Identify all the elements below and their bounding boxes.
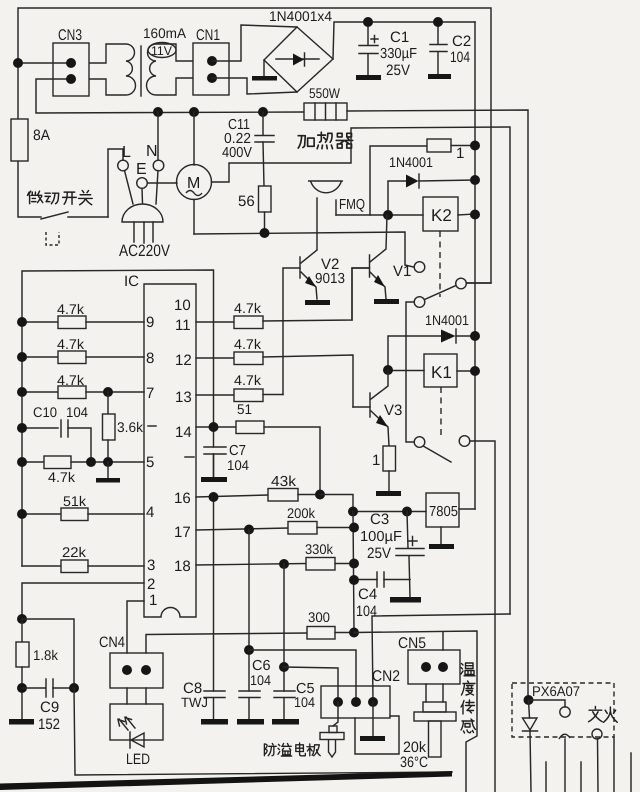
svg-text:400V: 400V (222, 145, 252, 161)
ground (V2 emitter) (305, 300, 330, 305)
connector PX6A07 (dashed) (512, 683, 614, 737)
thermistor sensor 20k/36C (400, 702, 456, 771)
svg-text:C2: C2 (452, 33, 471, 50)
resistor 330k (pin18) (196, 541, 359, 570)
capacitor C5 104 (274, 564, 315, 719)
wire: C5 node to CN2 pin1 (284, 667, 338, 702)
ground (C2) (428, 74, 451, 79)
svg-text:2: 2 (147, 576, 155, 593)
capacitor C3 100uF 25V (360, 511, 424, 597)
svg-text:K2: K2 (431, 206, 452, 225)
wire: FMQ/V1 node to K2 coil (336, 214, 423, 216)
svg-text:LED: LED (126, 751, 150, 768)
relay contact K2 (changeover switch) (406, 262, 491, 442)
ground (C3/C4) (390, 597, 421, 603)
resistor 200k (pin17) (196, 505, 359, 535)
node: V1 collector / K2 junction (383, 210, 393, 220)
capacitor C8 TWJ (181, 680, 225, 719)
wire: Vcc node to 7805 input (353, 511, 426, 513)
transformer T1 core (140, 46, 142, 96)
wire: motor return to heater line2 x510 (212, 127, 511, 614)
svg-text:1N4001: 1N4001 (425, 312, 469, 328)
svg-text:IC: IC (124, 273, 139, 290)
svg-text:3: 3 (147, 557, 155, 574)
svg-text:FMQ: FMQ (339, 197, 365, 213)
label: heater 加热器 (298, 132, 353, 149)
svg-text:9013: 9013 (315, 271, 345, 287)
svg-text:25V: 25V (367, 545, 391, 562)
label: overflow electrode 防溢电极 (264, 743, 320, 756)
svg-text:C3: C3 (370, 511, 389, 528)
svg-text:C4: C4 (358, 586, 377, 603)
wire: border to CN3 pin1 (18, 62, 71, 64)
motor M (177, 112, 212, 234)
capacitor C1 330uF 25V (359, 22, 417, 79)
wire: heater line2 to CN2 pin3 (372, 614, 510, 702)
resistor 4.7k (pin8) (17, 336, 144, 364)
capacitor C4 104 (349, 572, 410, 620)
transistor V2 9013 (283, 250, 345, 395)
svg-text:160mA: 160mA (143, 25, 187, 41)
wire: pin16 row (196, 492, 268, 502)
relay contact K1 (switch) (414, 436, 495, 792)
wire: CN3 pin2 to lower AC rail (36, 79, 304, 113)
svg-text:152: 152 (38, 716, 60, 733)
wire: divider bus x354 (353, 512, 354, 633)
svg-text:104: 104 (450, 49, 470, 66)
ignition switch contact (PX6A07) (529, 700, 571, 792)
ground (CN2 pin3) (360, 702, 385, 741)
svg-text:K1: K1 (431, 363, 452, 382)
svg-text:4.7k: 4.7k (48, 469, 76, 485)
wire: pin2 to timing network (22, 583, 144, 619)
resistor 300 (CN4) (146, 609, 359, 653)
resistor 4.7k (pin9) (17, 301, 144, 329)
LED indicator (110, 704, 163, 768)
ground (C8) (201, 719, 228, 725)
wire: mains top border loop (18, 8, 491, 283)
terminal L (118, 144, 133, 204)
svg-text:17: 17 (174, 524, 191, 541)
svg-text:104: 104 (66, 404, 88, 420)
svg-text:10: 10 (174, 297, 191, 314)
lamp terminal (simmer) (592, 729, 602, 792)
resistor 1 (V3 emitter) (372, 446, 396, 491)
node: lower AC rail junctions (153, 107, 163, 117)
relay coil K2 (423, 197, 475, 297)
svg-text:4.7k: 4.7k (234, 300, 262, 316)
svg-text:7805: 7805 (429, 504, 458, 520)
svg-text:4.7k: 4.7k (234, 372, 262, 388)
diode (PX6A07) (523, 700, 538, 792)
svg-text:22k: 22k (62, 544, 87, 560)
svg-text:V1: V1 (393, 263, 411, 280)
ground (C7) (201, 477, 227, 482)
svg-text:51: 51 (237, 401, 252, 417)
transformer T1 secondary winding (143, 25, 193, 95)
svg-text:550W: 550W (309, 85, 341, 101)
wire: L feed from micro switch (108, 149, 123, 217)
resistor 56 (238, 186, 271, 234)
svg-text:11: 11 (175, 317, 191, 334)
svg-text:CN3: CN3 (58, 27, 82, 44)
resistor 4.7k (pin13 to V2) (196, 372, 283, 402)
svg-text:51k: 51k (63, 493, 87, 509)
svg-text:25V: 25V (386, 62, 410, 79)
ground (pin5 node) (96, 462, 120, 483)
svg-text:C1: C1 (390, 29, 409, 46)
svg-text:1: 1 (149, 592, 157, 609)
wire: pot body loop under CN2 (355, 716, 399, 754)
transistor V3 (353, 370, 402, 446)
svg-text:8: 8 (146, 350, 154, 367)
ground (1.8k/C9) (9, 719, 34, 725)
capacitor C11 0.22 400V (222, 112, 274, 186)
svg-text:11V: 11V (151, 44, 173, 58)
resistor 3.6k (103, 392, 144, 462)
svg-text:1.8k: 1.8k (33, 647, 59, 663)
wire: heater to right bus x528 (347, 110, 528, 700)
connector CN5 (398, 632, 460, 702)
wire: main positive bus x475 (474, 22, 476, 509)
svg-text:C9: C9 (40, 699, 59, 716)
capacitor C9 152 (22, 679, 79, 733)
resistor 1.8k (16, 619, 59, 719)
wire: bottom return line (74, 688, 452, 775)
svg-text:1: 1 (372, 452, 380, 469)
svg-text:V3: V3 (384, 402, 402, 419)
resistor 51 (pin14) (196, 401, 320, 494)
capacitor C10 104 (17, 404, 91, 462)
ground (bridge negative) (252, 60, 277, 81)
resistor 22k (pin3) (22, 544, 144, 573)
capacitor C7 104 (204, 443, 249, 477)
transformer T1 primary winding (89, 44, 136, 95)
svg-text:PX6A07: PX6A07 (532, 683, 580, 699)
svg-text:104: 104 (227, 457, 249, 473)
capacitor C6 104 (239, 530, 271, 720)
svg-text:104: 104 (356, 603, 377, 620)
svg-text:100µF: 100µF (360, 529, 402, 545)
svg-text:C10: C10 (33, 404, 57, 420)
wire: bridge DC+ to top supply rail (333, 22, 475, 59)
node: top rail junctions (363, 17, 373, 27)
svg-text:9: 9 (146, 314, 154, 331)
svg-text:104: 104 (294, 694, 315, 710)
diode 1N4001 (K2 flyback) (388, 154, 475, 215)
svg-text:13: 13 (175, 389, 192, 406)
label: simmer 文火 (589, 707, 618, 723)
wire: lower common rail (194, 232, 414, 267)
capacitor C2 104 (430, 22, 471, 74)
label: micro switch 微动开关 (28, 191, 93, 205)
resistor 4.7k (pin5) (17, 456, 144, 485)
wire: C6 node to CN2 pin2 (249, 650, 356, 702)
svg-text:CN4: CN4 (99, 634, 125, 651)
svg-text:330µF: 330µF (380, 46, 417, 62)
svg-text:CN2: CN2 (372, 668, 400, 685)
wire: CN1 pin1 to bridge AC top (212, 25, 297, 61)
svg-text:4: 4 (146, 504, 154, 521)
scan edge bar (bottom) (0, 771, 452, 790)
svg-text:18: 18 (174, 558, 191, 575)
label: temperature sensor 温度传感 (vertical) (461, 663, 476, 733)
bridge rectifier 1N4001x4 (264, 8, 333, 92)
diode 1N4001 (K1 flyback) (388, 312, 475, 370)
IC U1 (124, 273, 196, 617)
connector CN2 (321, 668, 400, 718)
AC plug AC220V (119, 204, 170, 260)
connector CN3 (53, 27, 89, 96)
connector CN1 (193, 27, 229, 95)
svg-text:1N4001x4: 1N4001x4 (269, 8, 332, 24)
wire: left supply bus (22, 270, 214, 447)
svg-text:200k: 200k (287, 505, 316, 521)
svg-text:43k: 43k (271, 474, 297, 490)
node: V3 collector / K1 junction (383, 365, 393, 375)
resistor 1 (K2 feed) (427, 139, 475, 162)
overflow electrode probe (320, 702, 344, 757)
svg-text:4.7k: 4.7k (57, 301, 85, 317)
wire: node to CN5/temp sensor loop (354, 631, 477, 792)
ground (C1) (356, 75, 381, 80)
svg-text:CN1: CN1 (196, 27, 220, 44)
micro switch (arm and actuator) (41, 212, 108, 245)
ground (C6) (237, 719, 264, 725)
svg-text:4.7k: 4.7k (57, 336, 85, 352)
svg-text:8A: 8A (33, 127, 50, 144)
resistor 550W heater element (304, 85, 347, 120)
ground (7805) (429, 544, 454, 549)
resistor 4.7k (pin11 to V1) (196, 268, 369, 329)
svg-text:AC220V: AC220V (119, 242, 170, 260)
svg-text:L: L (122, 144, 131, 161)
svg-text:14: 14 (175, 424, 192, 441)
wire: CN1 pin2 to bridge AC bottom (212, 78, 297, 94)
resistor 4.7k (pin12 to V3) (196, 336, 353, 407)
svg-text:12: 12 (175, 352, 192, 369)
regulator 7805 (426, 493, 475, 544)
transistor V1 (352, 215, 411, 320)
svg-text:330k: 330k (305, 541, 334, 557)
svg-text:N: N (146, 143, 158, 160)
wire: bottom edge stubs (546, 737, 631, 792)
connector CN4 (99, 601, 163, 704)
svg-text:E: E (136, 161, 147, 178)
relay coil K1 (388, 354, 475, 437)
svg-text:300: 300 (308, 609, 330, 625)
resistor 51k (pin4) (17, 493, 144, 521)
fuse 8A (11, 119, 50, 161)
resistor 4.7k (pin7) (17, 372, 144, 399)
buzzer FMQ (308, 181, 368, 249)
svg-text:7: 7 (146, 385, 154, 402)
resistor 43k (pin16) (268, 474, 353, 512)
svg-text:5: 5 (146, 454, 154, 471)
ground (C5) (272, 719, 299, 725)
terminal N (146, 112, 164, 204)
svg-text:56: 56 (238, 193, 255, 210)
svg-text:4.7k: 4.7k (234, 336, 262, 352)
svg-text:16: 16 (174, 490, 191, 507)
ground (V1 emitter) (374, 299, 399, 304)
svg-text:1N4001: 1N4001 (389, 154, 433, 170)
svg-text:3.6k: 3.6k (117, 419, 144, 435)
svg-text:1: 1 (456, 145, 464, 162)
svg-text:104: 104 (250, 672, 271, 688)
terminal E (136, 161, 177, 203)
ground (V3 emitter resistor) (376, 491, 401, 496)
svg-text:M: M (187, 175, 200, 192)
svg-text:36°C: 36°C (400, 754, 428, 771)
